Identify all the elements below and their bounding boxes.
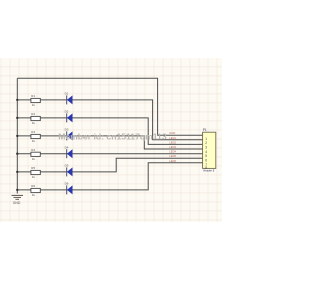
svg-text:R6: R6 xyxy=(31,184,35,188)
svg-text:R2: R2 xyxy=(31,112,35,116)
svg-text:LED2: LED2 xyxy=(169,140,176,144)
svg-text:D5: D5 xyxy=(65,164,69,168)
svg-text:LED6: LED6 xyxy=(169,159,176,163)
svg-text:R3: R3 xyxy=(31,130,35,134)
svg-text:5: 5 xyxy=(205,154,207,158)
svg-text:Header 8: Header 8 xyxy=(203,169,215,173)
svg-text:GND: GND xyxy=(169,131,175,135)
svg-text:LED1: LED1 xyxy=(169,136,176,140)
svg-text:1k: 1k xyxy=(32,121,36,125)
svg-text:LED4: LED4 xyxy=(169,150,176,154)
svg-text:P1: P1 xyxy=(203,128,207,132)
svg-text:D4: D4 xyxy=(65,146,69,150)
svg-text:D6: D6 xyxy=(65,182,69,186)
svg-text:GND: GND xyxy=(13,201,21,205)
svg-text:D2: D2 xyxy=(65,110,69,114)
svg-text:1k: 1k xyxy=(32,157,36,161)
svg-text:LED5: LED5 xyxy=(169,154,176,158)
svg-text:1k: 1k xyxy=(32,175,36,179)
svg-text:R5: R5 xyxy=(31,166,35,170)
svg-text:R1: R1 xyxy=(31,94,35,98)
svg-text:1: 1 xyxy=(205,137,207,141)
svg-text:Member id: cn15117qm113: Member id: cn15117qm113 xyxy=(58,131,167,141)
svg-text:D1: D1 xyxy=(65,92,69,96)
svg-text:1k: 1k xyxy=(32,193,36,197)
svg-text:R4: R4 xyxy=(31,148,35,152)
svg-text:1k: 1k xyxy=(32,139,36,143)
svg-text:3: 3 xyxy=(205,146,207,150)
svg-text:1k: 1k xyxy=(32,103,36,107)
svg-text:LED3: LED3 xyxy=(169,145,176,149)
